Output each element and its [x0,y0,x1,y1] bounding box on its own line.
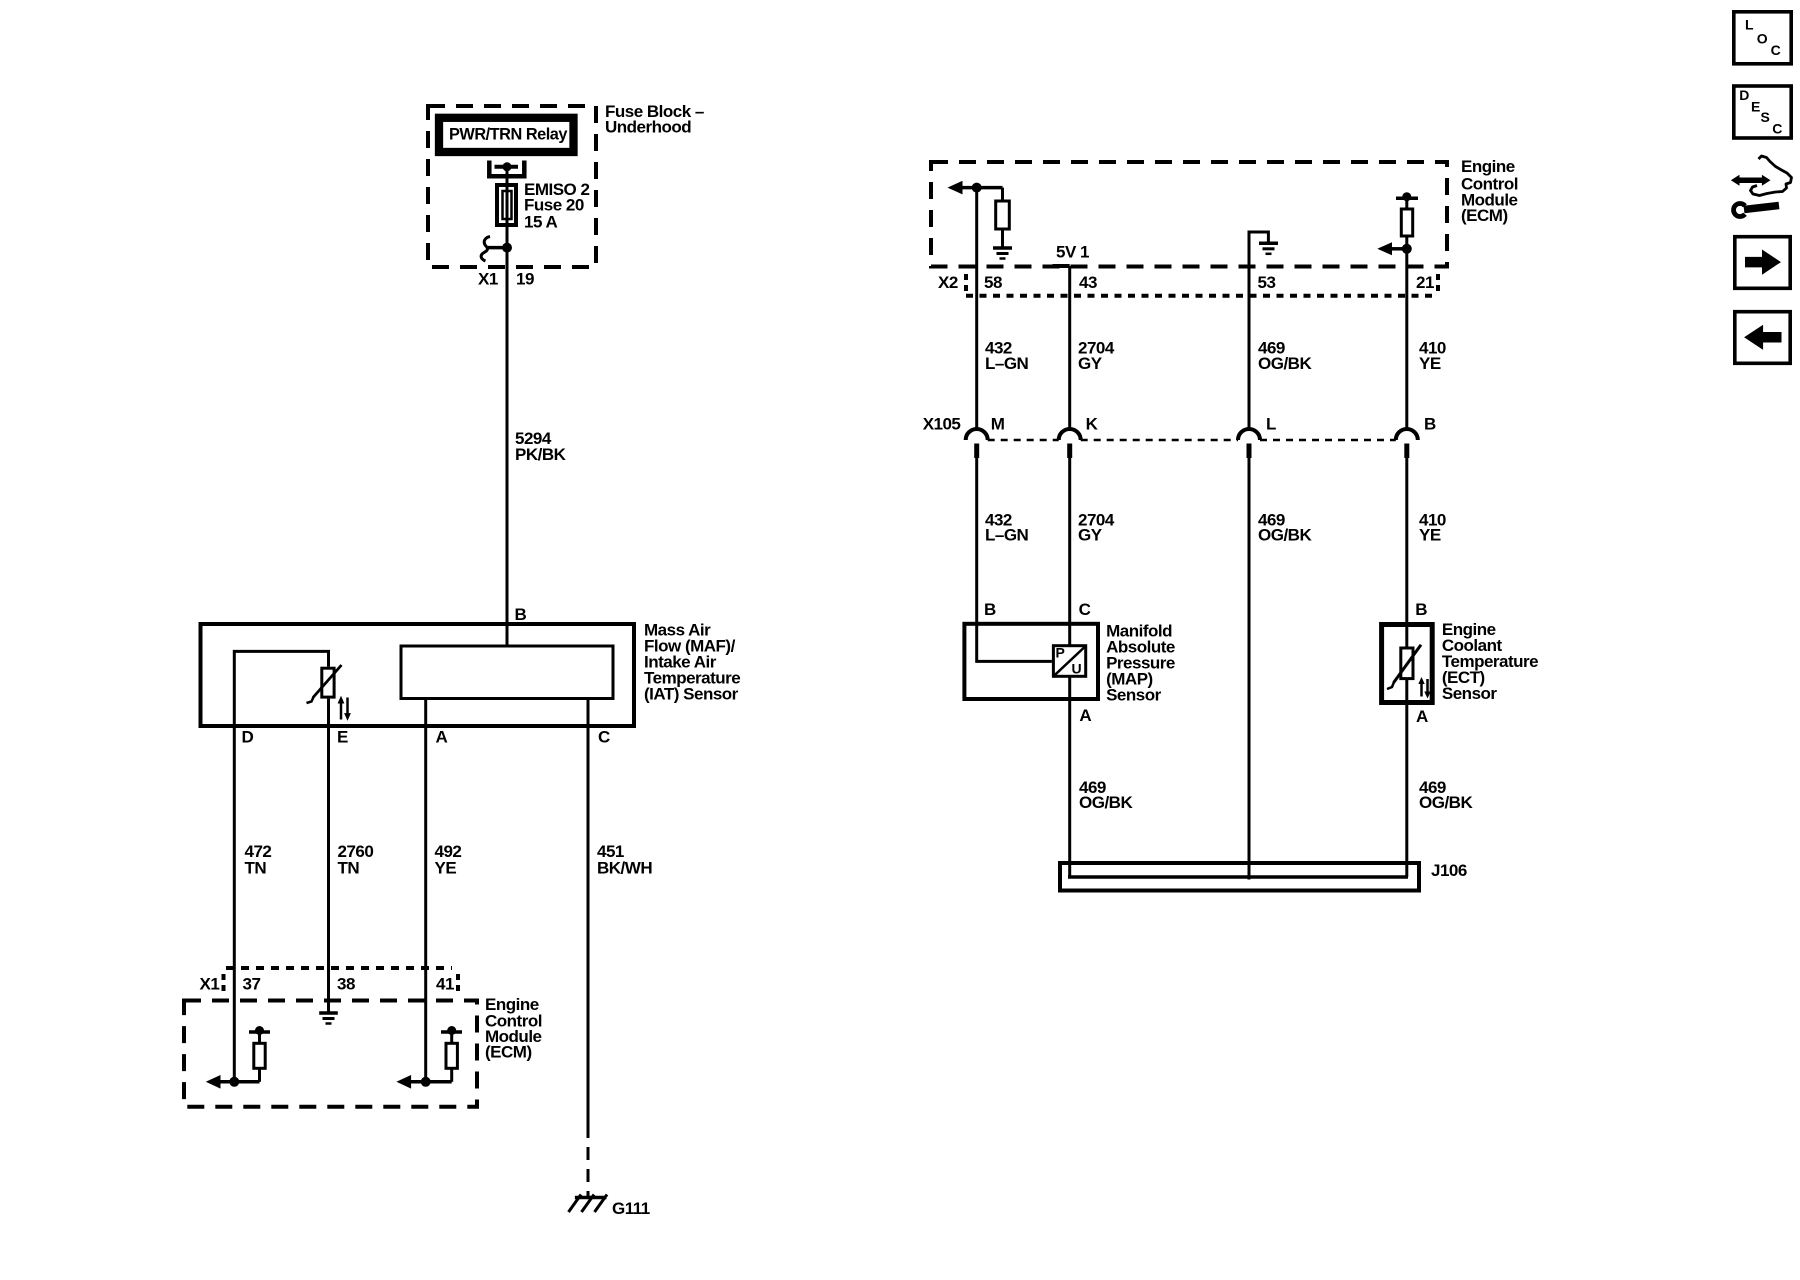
pin 41 resistor [450,1032,453,1043]
svg-text:(ECM): (ECM) [1461,206,1508,225]
svg-text:GY: GY [1078,525,1103,544]
switch tick [488,246,507,250]
icon LOC box [1734,12,1791,64]
icon DESC box [1734,86,1791,138]
icon navigation freehand outline [1751,156,1792,196]
switch hook symbol [481,237,490,262]
svg-text:37: 37 [243,975,261,994]
svg-text:E: E [337,728,348,747]
svg-text:YE: YE [435,859,457,878]
svg-text:OG/BK: OG/BK [1258,525,1312,544]
svg-text:L–GN: L–GN [985,525,1029,544]
X105 pin stubs [974,444,979,459]
svg-text:C: C [1079,600,1091,619]
X105 bump L [1238,429,1260,440]
IAT thermistor [322,668,334,697]
pin 43 5V nub [1053,264,1070,268]
svg-text:OG/BK: OG/BK [1419,793,1473,812]
svg-text:43: 43 [1079,273,1097,292]
ECT thermistor [1401,648,1413,679]
MAP sensor box [964,624,1098,699]
svg-text:A: A [1079,706,1091,725]
pin 53 internal ground [1259,242,1278,246]
svg-text:L: L [1266,415,1276,434]
icon navigation wrench [1744,206,1779,210]
pin 21 resistor [1405,198,1408,209]
svg-text:C: C [1771,42,1781,58]
svg-text:G111: G111 [612,1199,650,1218]
svg-text:A: A [1416,707,1428,726]
MAF inner block [401,646,613,699]
svg-text:B: B [1424,415,1436,434]
svg-text:D: D [242,728,254,747]
pin 41 arrow into ECM [411,1080,452,1084]
connector X1 dotted line [226,966,452,970]
svg-text:5V 1: 5V 1 [1056,243,1089,262]
svg-text:X105: X105 [923,415,961,434]
pin 58 arrow out [961,186,1003,190]
svg-text:A: A [436,728,448,747]
svg-text:38: 38 [337,975,355,994]
ECT sensor box [1382,625,1433,703]
svg-text:19: 19 [516,270,534,289]
X105 dashed line [988,439,1059,442]
svg-text:GY: GY [1078,354,1103,373]
svg-text:BK/WH: BK/WH [597,859,652,878]
icon forward arrow box [1735,237,1790,289]
svg-text:Underhood: Underhood [605,118,691,137]
svg-text:Sensor: Sensor [1106,686,1162,705]
ground G111 chassis symbol [575,1196,607,1200]
relay contact tick [495,165,519,169]
wire E: thermistor to ECM ground pin 38 [327,699,330,1012]
svg-text:41: 41 [436,975,454,994]
svg-text:YE: YE [1419,354,1441,373]
svg-text:58: 58 [984,273,1002,292]
svg-text:TN: TN [245,859,267,878]
svg-text:(IAT) Sensor: (IAT) Sensor [644,685,739,704]
svg-text:OG/BK: OG/BK [1079,793,1133,812]
svg-text:S: S [1761,109,1770,125]
wire A: MAF to ECM pin 41 [424,700,427,1082]
ECT up/down arrows [1420,681,1423,697]
svg-text:B: B [515,605,527,624]
MAP P/U transducer symbol [1053,646,1085,677]
svg-text:U: U [1072,661,1082,677]
ECM lower-left dashed box [184,1001,477,1107]
fuse EMISO 2 / Fuse 20 / 15 A [497,185,516,225]
icon navigation double arrow [1739,178,1764,184]
svg-text:X2: X2 [938,273,958,292]
svg-text:J106: J106 [1431,861,1467,880]
svg-text:(ECM): (ECM) [485,1043,532,1062]
svg-text:O: O [1757,30,1768,46]
svg-text:C: C [598,728,610,747]
wire D branch to thermistor [234,651,328,1081]
pin 21 arrow out [1392,247,1407,251]
relay PWR/TRN Relay box [439,118,574,152]
MAF/IAT sensor box [201,624,635,726]
IAT up/down arrows [340,701,343,720]
relay contact bracket [489,161,524,177]
svg-text:K: K [1086,415,1099,434]
svg-text:L: L [1745,17,1754,33]
svg-text:PK/BK: PK/BK [515,445,567,464]
wire 432: pin 58 to X105 M [975,188,978,430]
pin 37 resistor [258,1032,261,1043]
svg-text:OG/BK: OG/BK [1258,354,1312,373]
svg-text:B: B [1415,600,1427,619]
wire 410: pin 21 to X105 B [1405,249,1408,430]
pin 41 pull-up supply bar [441,1030,462,1034]
wire 451 dashed segment [587,1147,590,1196]
pin 37 arrow into ECM [219,1080,260,1084]
X105 bump M [966,429,988,440]
svg-text:C: C [1772,121,1782,137]
wire: relay contact to MAF pin B [506,167,509,646]
pin 53 wire with internal ground [1249,232,1268,430]
wire 469 middle to J106 [1248,456,1251,880]
pin 58 resistor to ground [1001,188,1004,201]
svg-text:PWR/TRN Relay: PWR/TRN Relay [449,125,568,144]
svg-text:M: M [991,415,1005,434]
fuse block dashed box: Fuse Block - Underhood [428,106,596,267]
X105 bump B [1396,429,1418,440]
X1 tick right [456,974,460,993]
X2 tick left [964,274,968,293]
svg-text:B: B [984,600,996,619]
icon back arrow box [1735,312,1790,364]
wire 2704: pin 43 to X105 K [1068,266,1071,430]
svg-text:X1: X1 [200,975,220,994]
ECM upper-right dashed box [931,162,1447,267]
connector X2 dotted line [966,294,1438,298]
wire C: MAF to G111 (solid part) [587,700,590,1138]
pin 58 internal ground [993,246,1012,250]
svg-text:Sensor: Sensor [1442,684,1498,703]
svg-text:TN: TN [338,859,360,878]
MAP internal wire B [977,622,1052,661]
svg-text:15 A: 15 A [524,213,558,232]
junction dot at relay contact [503,162,512,171]
svg-text:P: P [1056,645,1065,661]
pin 38 internal ground [319,1011,338,1015]
pin 37 pull-up supply bar [249,1030,270,1034]
wire 432 to MAP B [975,456,978,623]
svg-text:E: E [1751,99,1760,115]
splice pack J106 [1060,863,1419,891]
svg-text:D: D [1739,87,1749,103]
X1 tick left [222,974,226,993]
wire 410 to ECT B and wire 469 to J106 [1405,456,1408,877]
svg-text:X1: X1 [478,270,498,289]
svg-text:Engine: Engine [1461,157,1515,176]
svg-text:53: 53 [1258,273,1276,292]
X2 tick right [1436,274,1440,293]
X105 bump K [1059,429,1081,440]
svg-text:21: 21 [1416,273,1434,292]
junction dot below fuse [502,243,512,253]
wire 2704 to MAP C and wire 469 to J106 [1068,456,1071,877]
svg-text:YE: YE [1419,525,1441,544]
svg-text:L–GN: L–GN [985,354,1029,373]
pin 21 pull-up supply bar [1396,196,1418,200]
